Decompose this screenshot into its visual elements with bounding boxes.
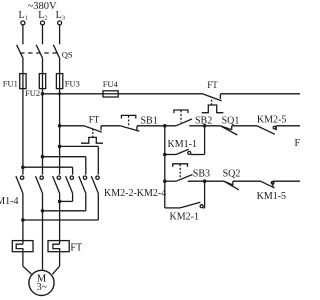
contact KM2-1 (NO self-hold) (165, 202, 205, 222)
wire phase C down to contact p3 (59, 89, 61, 175)
svg-text:F: F (295, 138, 301, 149)
wire heater right to motor (52, 252, 59, 275)
fuse FU2 (25, 74, 46, 99)
switch QS pole 2 (36, 45, 43, 59)
node U (21, 218, 25, 222)
contactor KM2-4 pole 6 (91, 176, 99, 193)
svg-text:KM2-5: KM2-5 (257, 114, 286, 125)
svg-text:SQ2: SQ2 (223, 169, 241, 180)
contactor KM2-3 pole 5 (79, 176, 87, 193)
svg-text:L3: L3 (56, 10, 65, 22)
svg-text:FU2: FU2 (25, 88, 40, 98)
wire W down to heater (59, 201, 61, 244)
wire L3 to QS (59, 25, 61, 44)
wire W node join p3 p4 (60, 193, 73, 201)
wire control top line right (220, 93, 300, 95)
contactor KM1-4 pole 2 (36, 176, 44, 193)
wire QS to FU1 (22, 59, 24, 74)
pushbutton SB1 (NC stop) (120, 115, 158, 131)
node FU2 junction (41, 92, 45, 96)
svg-text:FU1: FU1 (3, 78, 18, 88)
node KM1-1 left (163, 153, 167, 157)
wire SB2 to SQ1 (189, 125, 220, 127)
node FU3 junction (58, 92, 61, 95)
wire QS to FU3 (59, 59, 61, 74)
wire SB1 to SB2 (137, 125, 176, 127)
node rung3 left (163, 179, 167, 183)
terminal L1 (19, 10, 28, 25)
fuse FU4 (103, 79, 119, 97)
node J2 (203, 124, 207, 128)
node W (58, 200, 62, 204)
wire phase B down to contact p2 (42, 89, 44, 175)
svg-text:QS: QS (62, 50, 73, 60)
switch QS pole 3 (53, 45, 60, 59)
svg-text:FU3: FU3 (65, 78, 80, 88)
node phase C branch (58, 145, 62, 149)
node J3 (203, 179, 207, 183)
terminal L3 (56, 10, 65, 25)
contact KM2-5 (NC interlock) (257, 114, 286, 134)
node rail rung2 junction (58, 124, 62, 128)
wire QS to FU2 (42, 59, 44, 74)
pushbutton SB3 (NO start rev) (173, 164, 210, 181)
wire L1 to QS (22, 25, 24, 44)
wire phase B branch to p5 (43, 157, 86, 175)
svg-text:FT: FT (70, 242, 82, 253)
wire rung3 start (165, 180, 177, 182)
contact KM1-1 (NO self-hold) (165, 139, 205, 155)
svg-text:KM1-4: KM1-4 (0, 196, 18, 207)
wire U node join p1 p6 (23, 193, 98, 220)
pushbutton SB2 (NO start fwd) (174, 110, 212, 126)
heater FT element left (12, 241, 33, 252)
fuse FU1 (3, 74, 26, 89)
node phase B branch (41, 155, 45, 159)
fuse FU3 (56, 74, 80, 89)
node V (41, 209, 45, 213)
wire KM1-1 riser up to J2 (204, 126, 206, 155)
limit switch SQ2 (NC) (223, 169, 241, 190)
wire U down to heater (22, 220, 24, 244)
limit switch SQ1 (NC) (220, 115, 239, 135)
wire phase C branch to p6 (60, 146, 99, 174)
contactor KM1-4 pole 3 (53, 176, 61, 193)
contact KM1-5 (NC interlock) (257, 181, 286, 202)
thermal contact FT on rung 2 (81, 114, 103, 143)
thermal contact FT on top line (202, 80, 224, 113)
switch QS pole 1 (17, 45, 24, 59)
terminal L2 (38, 10, 47, 25)
wire FT to SB1 (101, 125, 120, 127)
node J1 (163, 124, 167, 128)
wire SQ1 to KM2-5 (232, 125, 258, 127)
svg-text:SB3: SB3 (193, 169, 210, 180)
svg-text:SB1: SB1 (141, 116, 158, 127)
svg-text:KM2-2-KM2-4: KM2-2-KM2-4 (104, 188, 166, 199)
contactor KM2-2 pole 4 (66, 176, 74, 193)
svg-text:FU4: FU4 (103, 79, 119, 89)
wire control top line left (43, 93, 204, 95)
svg-text:SQ1: SQ1 (222, 115, 240, 126)
node phase A branch (21, 165, 25, 169)
heater FT element right (48, 241, 69, 252)
wire phase A branch to p4 (23, 167, 73, 175)
svg-text:L1: L1 (19, 10, 28, 22)
wire KM1-5 to right edge (273, 180, 300, 182)
wire KM2-1 riser up to J3 (204, 181, 206, 208)
wire heater left to motor (23, 252, 32, 274)
svg-text:FT: FT (89, 114, 100, 124)
svg-text:3~: 3~ (37, 282, 48, 293)
wire V down to motor (42, 211, 44, 271)
contactor KM1-4 pole 1 (16, 176, 24, 193)
wire SQ2 to KM1-5 (233, 180, 261, 182)
svg-text:KM2-1: KM2-1 (170, 211, 199, 222)
switch QS linkage dashed (20, 52, 60, 54)
svg-text:KM1-5: KM1-5 (257, 191, 286, 202)
svg-text:FT: FT (207, 80, 218, 90)
wire riser J1 down (164, 126, 166, 208)
wire SB3 to SQ2 (188, 180, 224, 182)
wire phase A down to contact p1 (22, 89, 24, 175)
wire KM2-5 to right edge (276, 125, 300, 127)
wire V node join p2 p5 (43, 193, 86, 211)
wire rung2 start (60, 125, 84, 127)
wire L2 to QS (42, 25, 44, 44)
svg-text:KM1-1: KM1-1 (168, 139, 197, 150)
motor M 3~ (29, 270, 54, 295)
